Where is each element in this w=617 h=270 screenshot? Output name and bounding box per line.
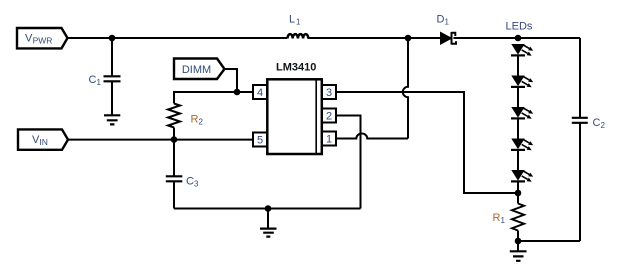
wire VIN to pin 5: [68, 139, 253, 141]
input tag DIMM: [174, 59, 225, 80]
ground (below R1): [510, 241, 527, 261]
capacitor C1: [89, 38, 121, 115]
node (LED bottom / FB junction): [515, 190, 522, 197]
svg-text:1: 1: [326, 133, 332, 145]
resistor R1: [493, 193, 525, 241]
svg-text:R: R: [191, 113, 199, 125]
svg-text:2: 2: [326, 110, 332, 122]
svg-text:3: 3: [326, 87, 332, 99]
wire pin 1 to node A (with hop over pin2 wire): [336, 134, 408, 139]
LED D-D: [511, 139, 533, 151]
input tag VPWR: [17, 28, 68, 48]
svg-text:2: 2: [601, 121, 606, 130]
svg-text:5: 5: [257, 134, 263, 146]
node (VIN / R2 / C3 junction): [171, 136, 178, 143]
pin 1: [322, 132, 336, 146]
capacitor C3: [166, 140, 199, 209]
wire: [517, 119, 519, 139]
wire C2 bottom to R1 bottom: [518, 240, 580, 242]
svg-text:R: R: [493, 212, 501, 224]
wire node A vertical (with hop over pin3 wire): [403, 38, 408, 139]
diode D1 (Schottky): [437, 14, 457, 45]
node (C1 junction): [109, 35, 116, 42]
node (R1 bottom / C2 bottom): [515, 238, 522, 245]
op-amp U1 LM3410 body: [267, 62, 322, 154]
node (LED string top): [515, 35, 522, 42]
node (ground rail): [265, 205, 272, 212]
svg-text:3: 3: [194, 180, 199, 189]
ground (below rail): [260, 209, 277, 237]
wire: [517, 56, 519, 76]
input tag VIN: [18, 129, 68, 149]
pin 3: [322, 85, 336, 99]
inductor L1: [288, 14, 309, 39]
svg-text:1: 1: [501, 216, 506, 225]
pin 5: [253, 133, 267, 147]
pin 2: [322, 109, 336, 123]
svg-text:4: 4: [257, 87, 263, 99]
capacitor C2: [572, 38, 606, 241]
resistor R2: [168, 92, 253, 140]
node A (SW node): [405, 35, 412, 42]
LED D-C: [511, 107, 533, 119]
svg-text:2: 2: [199, 117, 204, 126]
wire ground rail (C3 to pin2): [174, 208, 361, 210]
wire L1 to D1: [308, 37, 441, 39]
svg-text:1: 1: [445, 18, 450, 27]
svg-text:LEDs: LEDs: [506, 20, 533, 32]
LED D-E (bottom): [511, 170, 533, 182]
svg-text:C: C: [593, 117, 601, 129]
wire pin 3 to LED bottom (FB): [336, 92, 518, 193]
pin 4: [237, 85, 267, 99]
svg-text:IN: IN: [39, 137, 48, 147]
svg-text:PWR: PWR: [33, 35, 53, 45]
svg-text:1: 1: [296, 18, 301, 27]
LED D-A (top): [511, 44, 533, 56]
wire D1 to C2 top: [454, 37, 581, 39]
svg-text:L: L: [289, 14, 295, 26]
wire pin 2 to ground rail: [336, 116, 361, 209]
node (DIMM / R2 / pin4): [234, 89, 241, 96]
svg-text:D: D: [437, 14, 445, 26]
ground (below C1): [104, 115, 120, 124]
svg-text:LM3410: LM3410: [276, 62, 316, 74]
svg-text:1: 1: [97, 78, 102, 87]
LED D-B: [511, 76, 533, 88]
svg-text:C: C: [186, 176, 194, 188]
svg-text:C: C: [89, 74, 97, 86]
wire: [517, 87, 519, 107]
wire: [517, 182, 519, 194]
svg-text:DIMM: DIMM: [182, 64, 211, 76]
wire DIMM to pin 4 junction: [225, 69, 238, 92]
wire VPWR to L1: [67, 37, 287, 39]
wire: [517, 150, 519, 170]
